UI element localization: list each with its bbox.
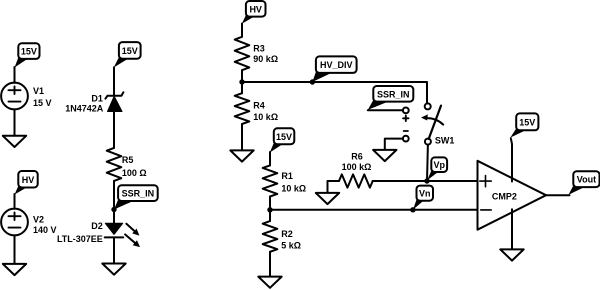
svg-text:100 kΩ: 100 kΩ bbox=[342, 162, 372, 172]
svg-text:15V: 15V bbox=[519, 117, 535, 127]
net flag HV (V2 positive terminal) bbox=[15, 171, 38, 195]
svg-text:R4: R4 bbox=[253, 101, 265, 111]
switch SW1 (voltage-controlled SPST) bbox=[403, 103, 455, 145]
svg-text:CMP2: CMP2 bbox=[492, 191, 517, 201]
node SSR_IN tap junction bbox=[111, 207, 116, 212]
wire Vn net (R1/R2 to comparator -) bbox=[270, 209, 478, 211]
ground bbox=[258, 277, 281, 288]
resistor R2 5 kΩ bbox=[263, 221, 301, 252]
svg-text:SW1: SW1 bbox=[435, 135, 455, 145]
wire bbox=[241, 24, 243, 37]
zener diode D1 1N4742A bbox=[65, 92, 123, 113]
wire bbox=[368, 109, 403, 111]
ground bbox=[230, 150, 253, 161]
LED D2 LTL-307EE bbox=[57, 221, 140, 247]
node HV_DIV junction (R3/R4) bbox=[239, 79, 244, 84]
wire bbox=[113, 181, 115, 223]
node HV_DIV flag attachment bbox=[310, 79, 315, 84]
wire bbox=[269, 252, 271, 277]
wire bbox=[14, 109, 16, 135]
net flag 15V (R1 top) bbox=[270, 128, 295, 152]
wire bbox=[426, 145, 429, 181]
svg-text:D1: D1 bbox=[91, 93, 103, 103]
resistor R5 100 Ω bbox=[107, 148, 147, 181]
ground bbox=[500, 249, 523, 260]
wire bbox=[241, 70, 243, 93]
svg-text:R5: R5 bbox=[122, 155, 134, 165]
wire bbox=[511, 209, 513, 249]
svg-text:Vp: Vp bbox=[433, 160, 445, 170]
node Vn junction (R1/R2) bbox=[267, 207, 272, 212]
wire HV_DIV net to switch bbox=[242, 82, 427, 103]
svg-text:Vn: Vn bbox=[419, 189, 431, 199]
svg-text:15 V: 15 V bbox=[33, 98, 52, 108]
svg-text:R3: R3 bbox=[253, 43, 265, 53]
svg-text:HV: HV bbox=[22, 175, 35, 185]
svg-text:90 kΩ: 90 kΩ bbox=[253, 54, 278, 64]
svg-text:SSR_IN: SSR_IN bbox=[122, 189, 155, 199]
wire Vp net (R6 to comparator +) bbox=[373, 180, 478, 182]
wire bbox=[14, 235, 16, 264]
voltage source V2 140 V bbox=[1, 209, 56, 236]
wire bbox=[546, 194, 570, 196]
svg-text:10 kΩ: 10 kΩ bbox=[281, 183, 306, 193]
voltage source V1 15 V bbox=[1, 83, 51, 110]
net flag SSR_IN (LED anode) bbox=[114, 185, 158, 209]
wire bbox=[14, 194, 16, 209]
wire bbox=[113, 67, 115, 96]
svg-text:100 Ω: 100 Ω bbox=[122, 168, 147, 178]
net flag 15V (zener cathode) bbox=[114, 42, 141, 67]
node Vn flag attachment bbox=[410, 207, 415, 212]
resistor R3 90 kΩ bbox=[235, 37, 278, 70]
svg-text:10 kΩ: 10 kΩ bbox=[253, 112, 278, 122]
net flag HV (divider top) bbox=[242, 1, 266, 24]
wire bbox=[113, 112, 115, 148]
svg-text:15V: 15V bbox=[21, 47, 37, 57]
ground bbox=[316, 193, 339, 204]
ground bbox=[3, 264, 26, 275]
net flag Vp bbox=[427, 157, 447, 180]
svg-text:V1: V1 bbox=[33, 86, 44, 96]
net flag 15V (CMP2 supply) bbox=[510, 113, 538, 137]
ground bbox=[3, 136, 26, 147]
wire bbox=[269, 197, 271, 222]
resistor R1 10 kΩ bbox=[263, 165, 306, 196]
net flag Vout bbox=[569, 171, 600, 195]
net flag HV_DIV bbox=[312, 56, 356, 82]
net flag SSR_IN (switch control +) bbox=[368, 86, 414, 110]
wire bbox=[511, 138, 512, 181]
resistor R4 10 kΩ bbox=[235, 93, 278, 124]
svg-text:5 kΩ: 5 kΩ bbox=[281, 240, 301, 250]
svg-text:D2: D2 bbox=[91, 221, 103, 231]
svg-text:LTL-307EE: LTL-307EE bbox=[57, 234, 103, 244]
svg-text:V2: V2 bbox=[33, 214, 44, 224]
svg-text:R1: R1 bbox=[281, 171, 293, 181]
svg-text:R6: R6 bbox=[351, 151, 363, 161]
svg-text:Vout: Vout bbox=[577, 175, 596, 185]
svg-text:HV: HV bbox=[249, 4, 262, 14]
wire bbox=[328, 181, 340, 193]
svg-text:HV_DIV: HV_DIV bbox=[320, 60, 353, 70]
wire bbox=[269, 152, 271, 165]
node Vp junction (switch/R6) bbox=[424, 178, 429, 183]
resistor R6 100 kΩ bbox=[339, 151, 373, 187]
net flag Vn bbox=[413, 186, 433, 210]
ground bbox=[102, 264, 125, 275]
svg-text:15V: 15V bbox=[276, 132, 292, 142]
svg-text:15V: 15V bbox=[122, 46, 138, 56]
wire bbox=[241, 124, 243, 150]
net flag 15V (V1 positive terminal) bbox=[15, 43, 40, 67]
svg-text:1N4742A: 1N4742A bbox=[65, 104, 104, 114]
wire bbox=[14, 67, 16, 83]
svg-text:R2: R2 bbox=[281, 229, 293, 239]
ground bbox=[373, 150, 396, 161]
svg-text:SSR_IN: SSR_IN bbox=[377, 89, 410, 99]
wire bbox=[113, 237, 115, 263]
wire bbox=[385, 139, 403, 150]
comparator CMP2 bbox=[478, 161, 547, 230]
svg-text:140 V: 140 V bbox=[33, 225, 57, 235]
